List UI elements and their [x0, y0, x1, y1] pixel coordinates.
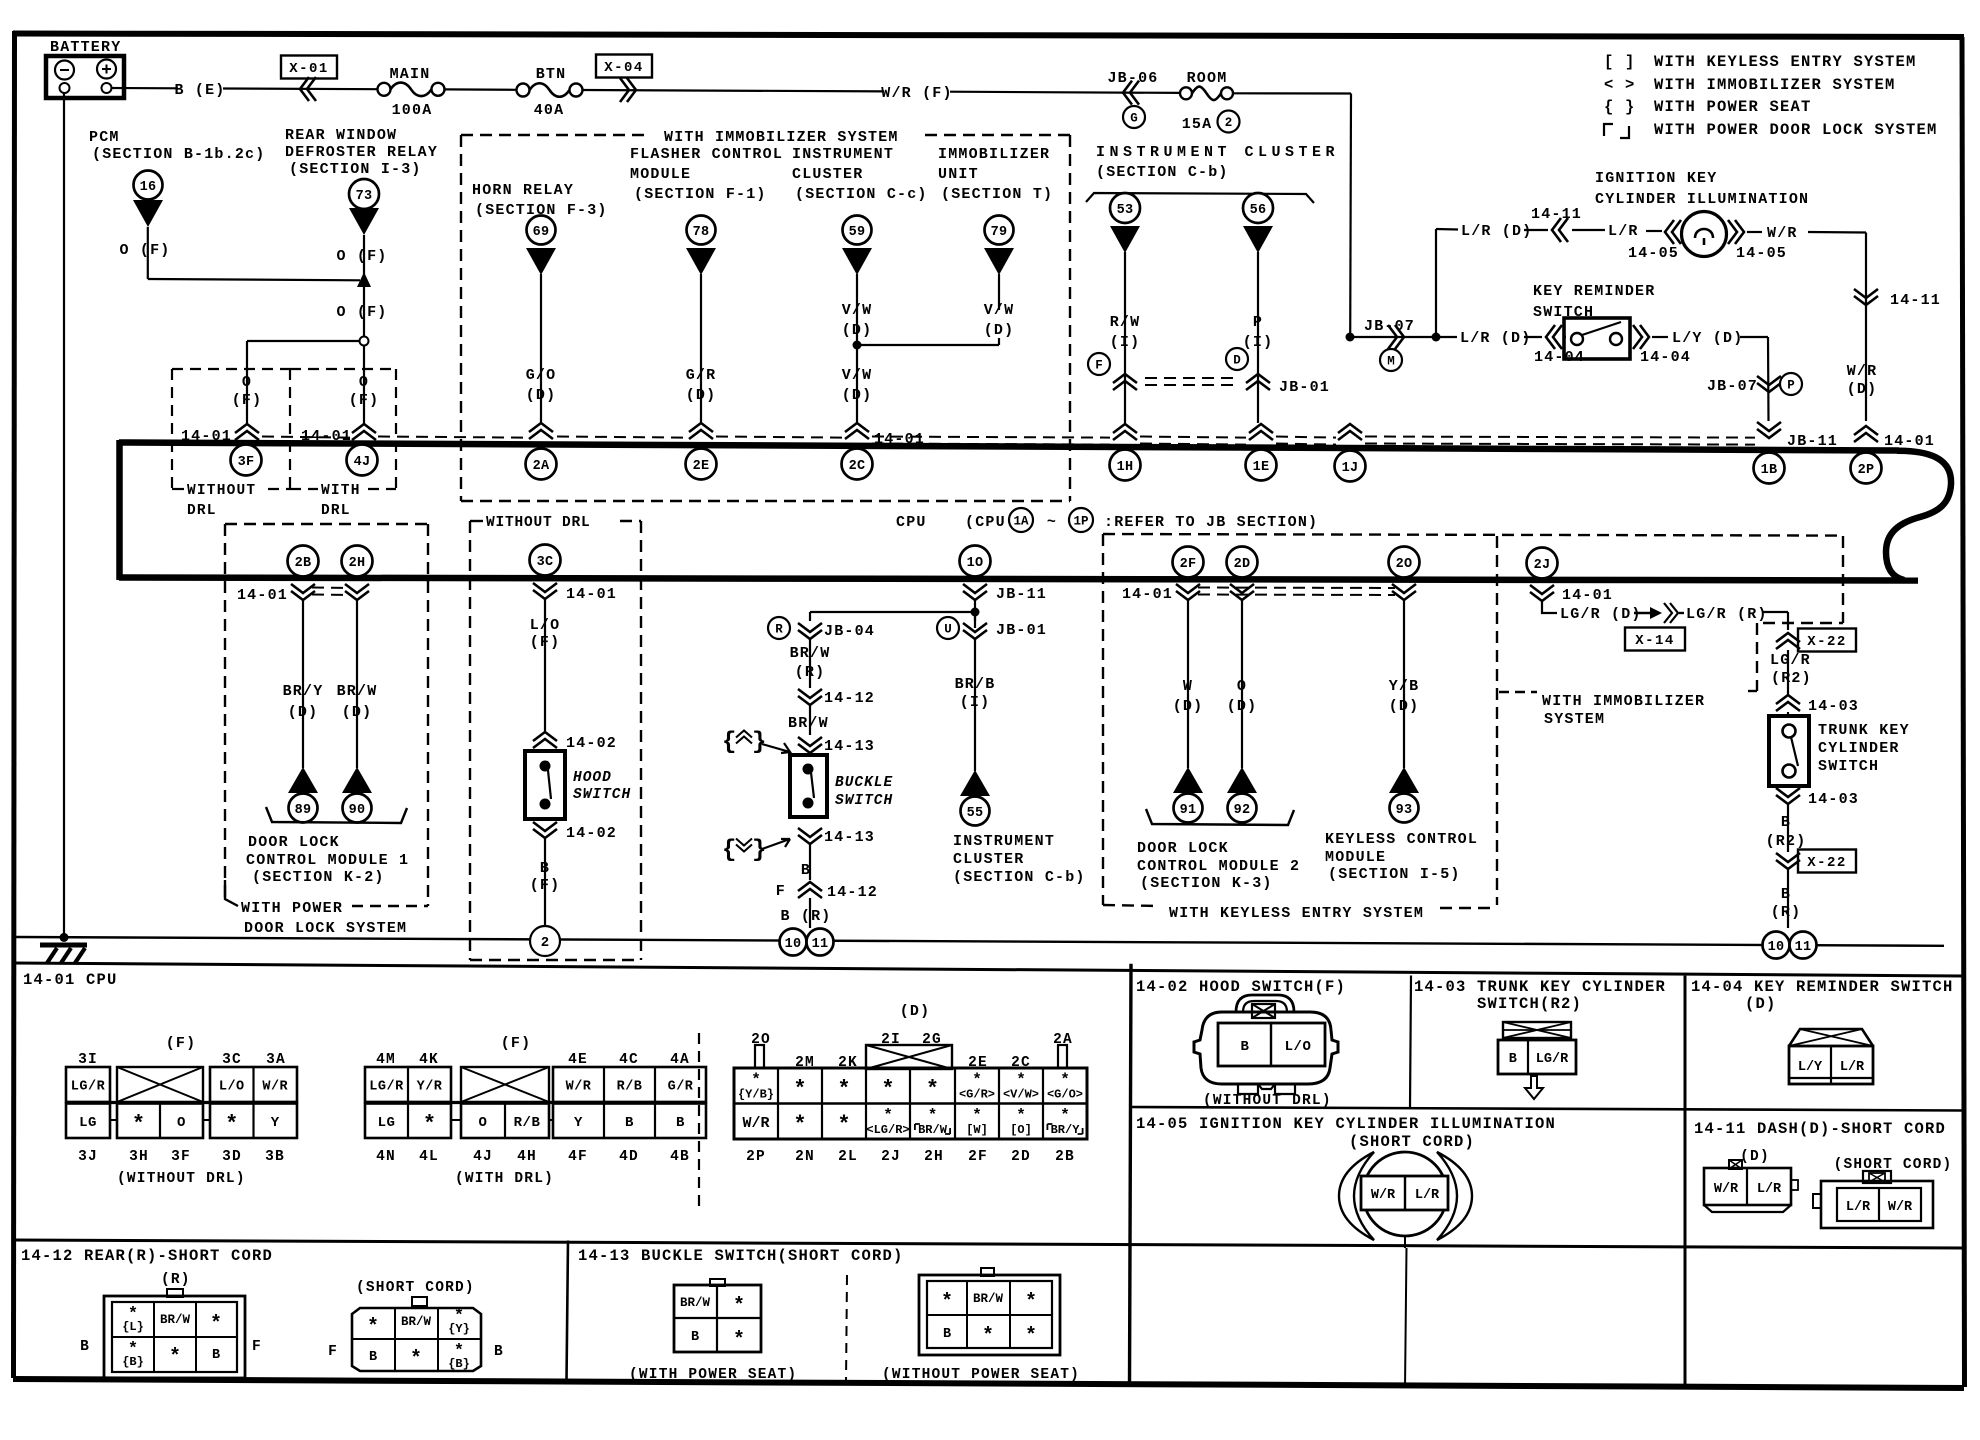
svg-text:1A: 1A	[1013, 515, 1029, 529]
svg-text:WITH IMMOBILIZER: WITH IMMOBILIZER	[1542, 693, 1705, 710]
svg-text:2D: 2D	[1234, 557, 1251, 572]
connector 79	[985, 216, 1014, 245]
svg-text:14-12: 14-12	[824, 690, 875, 707]
wire from JB-07 junction up-right	[1435, 229, 1437, 337]
svg-text:DRL: DRL	[321, 503, 351, 519]
svg-text:G/R: G/R	[668, 1079, 694, 1094]
svg-text:BR/W: BR/W	[401, 1315, 432, 1329]
svg-text:W/R (F): W/R (F)	[881, 85, 952, 102]
svg-text:3I: 3I	[78, 1052, 98, 1068]
svg-text:14-02: 14-02	[566, 825, 617, 842]
hood switch connector drawing	[1236, 995, 1294, 1012]
svg-text:*: *	[423, 1112, 436, 1137]
svg-text:14-13: 14-13	[824, 738, 875, 755]
connector 2J	[1527, 548, 1558, 579]
wire to right corner	[1233, 92, 1351, 94]
svg-text:LG/R: LG/R	[71, 1079, 106, 1094]
node M	[1380, 349, 1402, 371]
ground symbol	[40, 943, 87, 948]
svg-text:14-01: 14-01	[237, 587, 288, 604]
svg-text:14-05 IGNITION KEY CYLINDER IL: 14-05 IGNITION KEY CYLINDER ILLUMINATION	[1136, 1115, 1556, 1133]
svg-text:(WITH POWER SEAT): (WITH POWER SEAT)	[629, 1367, 797, 1383]
svg-text:<G/R>: <G/R>	[959, 1088, 995, 1102]
chevron 1E	[1249, 424, 1273, 433]
dashed immobilizer region	[1842, 536, 1844, 623]
ground bus wire	[16, 937, 1944, 946]
svg-text:(D): (D)	[686, 387, 717, 404]
svg-text:WITH POWER DOOR LOCK SYSTEM: WITH POWER DOOR LOCK SYSTEM	[1654, 121, 1938, 139]
crossed tab	[866, 1045, 952, 1069]
symbol stub	[1404, 1236, 1406, 1248]
wire	[583, 90, 885, 91]
svg-text:KEYLESS CONTROL: KEYLESS CONTROL	[1325, 831, 1478, 848]
svg-text:(D): (D)	[1740, 1149, 1770, 1165]
svg-text:11: 11	[1795, 940, 1812, 955]
svg-text:2H: 2H	[349, 556, 366, 571]
svg-text:L/Y (D): L/Y (D)	[1672, 330, 1743, 347]
svg-text:4E: 4E	[568, 1052, 588, 1068]
table grid	[13, 963, 1964, 976]
svg-text:Y/R: Y/R	[417, 1079, 443, 1094]
svg-text:14-04 KEY REMINDER SWITCH: 14-04 KEY REMINDER SWITCH	[1691, 978, 1954, 996]
connector 1O	[960, 546, 991, 577]
svg-text:(SECTION T): (SECTION T)	[941, 186, 1053, 203]
CPU bus right S-curve	[1886, 451, 1951, 580]
svg-text:R/W: R/W	[1110, 314, 1141, 331]
chevron 14-11	[1524, 229, 1548, 231]
svg-text:14-13: 14-13	[824, 829, 875, 846]
node 2	[1218, 111, 1240, 133]
svg-text:CONTROL MODULE 2: CONTROL MODULE 2	[1137, 858, 1300, 875]
connector 11 on ground wire	[807, 929, 834, 956]
svg-text:2: 2	[541, 935, 549, 951]
wire branch left	[810, 611, 975, 613]
svg-text:2P: 2P	[1858, 463, 1875, 478]
svg-text:}: }	[752, 837, 766, 864]
svg-text:*: *	[1060, 1071, 1070, 1089]
svg-text:U: U	[944, 623, 952, 637]
svg-text:O (F): O (F)	[336, 304, 387, 321]
svg-text::REFER TO JB SECTION): :REFER TO JB SECTION)	[1104, 514, 1318, 531]
svg-text:(D): (D)	[526, 387, 557, 404]
svg-text:ROOM: ROOM	[1187, 70, 1228, 87]
svg-text:CONTROL MODULE 1: CONTROL MODULE 1	[246, 852, 409, 869]
chevron 2H	[345, 584, 369, 593]
splice dot	[853, 341, 862, 350]
key reminder switch box	[1564, 336, 1566, 338]
dash connector short cord	[1863, 1171, 1891, 1183]
svg-text:4A: 4A	[670, 1052, 690, 1068]
svg-text:B (R): B (R)	[780, 908, 831, 925]
svg-text:~: ~	[1047, 514, 1057, 531]
svg-text:(R): (R)	[1771, 904, 1802, 921]
svg-text:LG/R: LG/R	[369, 1079, 404, 1094]
hood switch	[525, 751, 565, 819]
svg-text:(D): (D)	[1389, 698, 1420, 715]
svg-text:10: 10	[785, 937, 802, 952]
chevron 14-03 below	[1776, 788, 1800, 797]
svg-text:<V/W>: <V/W>	[1003, 1088, 1039, 1102]
wire battery minus to ground bus	[63, 93, 65, 937]
node D	[1226, 348, 1248, 370]
svg-text:}: }	[752, 729, 766, 756]
trunk key cylinder switch	[1787, 712, 1789, 716]
wire	[809, 639, 811, 688]
svg-text:*: *	[793, 1112, 806, 1137]
svg-text:Y: Y	[574, 1115, 583, 1131]
hollow arrow down	[1525, 1076, 1543, 1099]
svg-text:2F: 2F	[968, 1149, 988, 1165]
legend with power door lock system	[1604, 124, 1613, 136]
svg-text:WITH POWER: WITH POWER	[241, 900, 343, 917]
chevron 14-04	[1524, 336, 1542, 338]
svg-text:R: R	[775, 623, 783, 637]
svg-text:G: G	[1130, 112, 1138, 126]
svg-text:O: O	[242, 374, 252, 391]
svg-text:IMMOBILIZER: IMMOBILIZER	[938, 146, 1050, 163]
svg-text:78: 78	[693, 225, 710, 240]
connector 11 right	[1790, 932, 1817, 959]
arrow chevron X-14	[1634, 612, 1655, 614]
svg-text:2D: 2D	[1011, 1149, 1031, 1165]
connector 14-01 (F) with DRL row2	[365, 1104, 451, 1139]
JB-01 chevrons row	[1113, 374, 1137, 383]
splice junction	[357, 272, 371, 287]
wire	[809, 844, 811, 880]
svg-text:(F): (F)	[166, 1035, 197, 1052]
wire	[809, 898, 811, 928]
wire 4J column down	[363, 346, 365, 426]
svg-text:B: B	[691, 1330, 699, 1345]
connector 2A	[526, 449, 557, 480]
svg-text:*: *	[982, 1325, 994, 1348]
svg-text:14-13 BUCKLE SWITCH(SHORT CORD: 14-13 BUCKLE SWITCH(SHORT CORD)	[578, 1247, 904, 1265]
svg-text:LG: LG	[378, 1115, 396, 1131]
connector 2P	[1851, 453, 1882, 484]
svg-text:14-05: 14-05	[1628, 245, 1679, 262]
svg-text:BUCKLE: BUCKLE	[835, 775, 893, 791]
svg-text:14-11: 14-11	[1890, 292, 1941, 309]
wire	[1763, 611, 1788, 613]
connector 1J	[1335, 451, 1366, 482]
svg-text:R/B: R/B	[514, 1115, 541, 1131]
svg-text:FLASHER CONTROL: FLASHER CONTROL	[630, 146, 783, 163]
wire	[1787, 650, 1789, 694]
svg-text:WITH KEYLESS ENTRY SYSTEM: WITH KEYLESS ENTRY SYSTEM	[1169, 905, 1424, 922]
svg-text:L/O: L/O	[530, 617, 561, 634]
svg-text:3D: 3D	[222, 1149, 242, 1165]
node F	[1088, 353, 1110, 375]
svg-text:*: *	[1016, 1107, 1026, 1125]
svg-text:(SECTION K-2): (SECTION K-2)	[252, 869, 385, 886]
svg-text:3C: 3C	[222, 1052, 242, 1068]
label L/Y(D)	[1652, 336, 1668, 338]
svg-text:2A: 2A	[533, 459, 550, 474]
svg-text:4J: 4J	[354, 455, 371, 470]
svg-text:14-11 DASH(D)-SHORT CORD: 14-11 DASH(D)-SHORT CORD	[1694, 1120, 1946, 1138]
svg-text:JB-04: JB-04	[824, 623, 875, 640]
buckle connector with power seat	[710, 1279, 725, 1286]
svg-text:*: *	[225, 1112, 238, 1137]
svg-text:UNIT: UNIT	[938, 166, 979, 183]
svg-text:2E: 2E	[693, 459, 710, 474]
svg-text:14-01: 14-01	[1884, 433, 1935, 450]
wire	[1257, 252, 1259, 423]
svg-text:*: *	[972, 1071, 982, 1089]
svg-text:F: F	[1095, 359, 1103, 373]
branch node (open circle)	[360, 337, 369, 346]
svg-text:*: *	[410, 1348, 422, 1371]
svg-text:X-22: X-22	[1807, 634, 1847, 650]
svg-text:BR/W: BR/W	[788, 715, 829, 732]
wire PCM down and right	[147, 227, 149, 279]
svg-text:INSTRUMENT: INSTRUMENT	[792, 146, 894, 163]
row link lines	[66, 1101, 297, 1104]
buckle switch	[790, 755, 827, 817]
svg-text:BATTERY: BATTERY	[50, 39, 121, 56]
connector 78	[687, 216, 716, 245]
chevron 2D	[1230, 584, 1254, 593]
wire	[809, 705, 811, 735]
connector 4J	[347, 445, 378, 476]
svg-text:(SHORT CORD): (SHORT CORD)	[1349, 1133, 1475, 1151]
svg-text:40A: 40A	[534, 102, 565, 119]
svg-text:JB-07: JB-07	[1707, 378, 1758, 395]
svg-text:*: *	[941, 1291, 953, 1314]
svg-text:B: B	[801, 862, 811, 879]
wire	[1124, 252, 1126, 423]
svg-text:W/R: W/R	[742, 1115, 769, 1132]
wire	[1646, 230, 1662, 232]
chevron 14-13 above buckle	[798, 737, 822, 746]
svg-text:14-03: 14-03	[1808, 791, 1859, 808]
svg-text:(SHORT CORD): (SHORT CORD)	[356, 1280, 475, 1296]
chevron 14-13 below buckle	[798, 828, 822, 837]
svg-text:*: *	[928, 1107, 938, 1125]
svg-text:L/Y: L/Y	[1798, 1060, 1823, 1075]
svg-text:(I): (I)	[960, 694, 991, 711]
svg-text:{B}: {B}	[122, 1355, 144, 1369]
svg-text:10: 10	[1768, 940, 1785, 955]
svg-text:W/R: W/R	[1847, 363, 1878, 380]
svg-text:4L: 4L	[419, 1149, 439, 1165]
row link lines	[365, 1101, 706, 1104]
label X-22	[1798, 629, 1856, 652]
svg-text:1O: 1O	[967, 556, 984, 571]
svg-text:G/O: G/O	[526, 367, 557, 384]
connector X-01	[281, 56, 337, 79]
wire	[544, 838, 546, 926]
svg-text:WITH IMMOBILIZER SYSTEM: WITH IMMOBILIZER SYSTEM	[664, 129, 899, 146]
svg-text:(WITHOUT POWER SEAT): (WITHOUT POWER SEAT)	[882, 1367, 1080, 1383]
svg-text:P: P	[1787, 379, 1795, 393]
svg-text:(SECTION C-b): (SECTION C-b)	[953, 869, 1086, 886]
wire 2H	[356, 600, 358, 768]
svg-text:4F: 4F	[568, 1149, 588, 1165]
svg-text:(D): (D)	[288, 704, 319, 721]
svg-text:REAR WINDOW: REAR WINDOW	[285, 127, 397, 144]
connector 59	[843, 216, 872, 245]
svg-text:*: *	[751, 1071, 761, 1089]
svg-text:(SECTION C-b): (SECTION C-b)	[1096, 164, 1229, 181]
connector 2 on ground wire	[530, 926, 560, 956]
svg-text:SWITCH: SWITCH	[1818, 758, 1879, 775]
svg-text:2B: 2B	[1055, 1149, 1075, 1165]
svg-text:BR/Y: BR/Y	[283, 683, 324, 700]
chevron 3C 14-01	[533, 583, 557, 592]
wire	[974, 600, 976, 628]
junction dot	[971, 608, 980, 617]
svg-text:(D): (D)	[842, 387, 873, 404]
svg-text:V/W: V/W	[984, 302, 1015, 319]
svg-text:*: *	[1025, 1291, 1037, 1314]
svg-text:JB-06: JB-06	[1107, 70, 1158, 87]
chevron 14-04 right	[1633, 325, 1642, 349]
connector 14-01 (F) without DRL row1	[66, 1067, 110, 1102]
svg-text:W/R: W/R	[1371, 1188, 1396, 1203]
chevron 14-11 vertical	[1854, 289, 1878, 298]
svg-text:*: *	[926, 1077, 939, 1102]
svg-text:(R): (R)	[161, 1272, 191, 1288]
label X-14	[1625, 628, 1685, 651]
svg-text:V/W: V/W	[842, 367, 873, 384]
svg-text:LG/R: LG/R	[1770, 652, 1811, 669]
svg-text:93: 93	[1396, 803, 1413, 818]
svg-text:WITH KEYLESS ENTRY SYSTEM: WITH KEYLESS ENTRY SYSTEM	[1654, 53, 1917, 71]
connector 53	[1110, 193, 1140, 223]
chevron 14-02 below hood switch	[533, 822, 557, 831]
svg-text:L/R: L/R	[1415, 1188, 1440, 1203]
svg-text:X-01: X-01	[289, 61, 329, 77]
svg-text:55: 55	[967, 806, 984, 821]
svg-text:BR/W: BR/W	[973, 1292, 1004, 1306]
svg-text:BR/W: BR/W	[790, 645, 831, 662]
svg-text:W: W	[1183, 678, 1193, 695]
svg-text:2J: 2J	[881, 1149, 901, 1165]
svg-text:LG/R: LG/R	[1536, 1052, 1569, 1067]
svg-text:IGNITION KEY: IGNITION KEY	[1595, 170, 1717, 187]
connector 2H	[342, 546, 373, 577]
svg-text:3B: 3B	[265, 1149, 285, 1165]
svg-text:4N: 4N	[376, 1149, 396, 1165]
svg-text:WITHOUT DRL: WITHOUT DRL	[486, 515, 591, 531]
svg-text:(SECTION K-3): (SECTION K-3)	[1140, 875, 1273, 892]
svg-text:(D): (D)	[342, 704, 373, 721]
trunk key connector drawing	[1503, 1022, 1571, 1038]
svg-text:91: 91	[1180, 803, 1197, 818]
svg-text:3H: 3H	[129, 1149, 149, 1165]
bus2 dashed option row	[312, 587, 350, 590]
svg-text:DOOR LOCK SYSTEM: DOOR LOCK SYSTEM	[244, 920, 407, 937]
chevron 2A	[529, 423, 553, 432]
svg-text:(D): (D)	[1847, 381, 1878, 398]
svg-text:14-12: 14-12	[827, 884, 878, 901]
svg-text:O (F): O (F)	[119, 242, 170, 259]
chevron 1H	[1113, 424, 1137, 433]
svg-text:{Y}: {Y}	[448, 1322, 470, 1336]
junction dot	[1432, 333, 1441, 342]
svg-text:B: B	[212, 1348, 220, 1363]
svg-text:(D): (D)	[842, 322, 873, 339]
svg-text:JB-11: JB-11	[1787, 433, 1838, 450]
CPU bus upper	[119, 443, 1899, 451]
svg-text:14-11: 14-11	[1531, 206, 1582, 223]
chevron 14-12 lower	[798, 882, 822, 891]
svg-text:(R): (R)	[795, 664, 826, 681]
wire down	[363, 235, 365, 336]
svg-text:(SECTION I-3): (SECTION I-3)	[289, 161, 422, 178]
connector 2C	[842, 449, 873, 480]
wire to key reminder	[1350, 336, 1436, 338]
svg-text:KEY REMINDER: KEY REMINDER	[1533, 283, 1655, 300]
svg-text:*: *	[733, 1329, 745, 1352]
svg-text:L/O: L/O	[1285, 1039, 1312, 1055]
svg-text:WITHOUT: WITHOUT	[187, 483, 256, 499]
wire U column	[974, 616, 976, 621]
svg-text:B: B	[1241, 1039, 1250, 1055]
svg-text:JB-11: JB-11	[996, 586, 1047, 603]
wire to right corner	[1808, 231, 1866, 234]
svg-text:14-03 TRUNK KEY CYLINDER: 14-03 TRUNK KEY CYLINDER	[1414, 978, 1666, 996]
connector 10 right	[1763, 932, 1790, 959]
svg-text:{B}: {B}	[448, 1357, 470, 1371]
svg-text:1H: 1H	[1117, 460, 1134, 475]
svg-text:(I): (I)	[1243, 334, 1274, 351]
svg-text:(SECTION C-c): (SECTION C-c)	[795, 186, 928, 203]
svg-text:<LG/R>: <LG/R>	[866, 1123, 909, 1137]
svg-text:3J: 3J	[78, 1149, 98, 1165]
svg-text:{L}: {L}	[122, 1320, 144, 1334]
svg-text:LG/R (D): LG/R (D)	[1560, 606, 1642, 623]
svg-text:89: 89	[295, 803, 312, 818]
svg-text:WITH POWER SEAT: WITH POWER SEAT	[1654, 98, 1812, 116]
svg-text:MODULE: MODULE	[630, 166, 691, 183]
wire	[700, 274, 702, 423]
pin stubs	[755, 1045, 764, 1068]
svg-text:1P: 1P	[1073, 515, 1088, 529]
dashed box with power door lock system	[225, 523, 428, 525]
svg-text:L/R (D): L/R (D)	[1460, 330, 1531, 347]
svg-text:Y: Y	[271, 1115, 280, 1131]
illumination symbol	[1363, 1152, 1447, 1236]
svg-text:O: O	[177, 1115, 186, 1131]
svg-text:2: 2	[1225, 116, 1233, 130]
svg-text:[ ]: [ ]	[1604, 53, 1636, 71]
svg-text:*: *	[881, 1077, 894, 1102]
svg-text:X-22: X-22	[1807, 855, 1847, 871]
svg-text:F: F	[252, 1339, 262, 1355]
chevron 2E	[689, 423, 713, 432]
svg-text:(SECTION F-1): (SECTION F-1)	[634, 186, 767, 203]
wire	[1787, 804, 1789, 852]
svg-text:14-01 CPU: 14-01 CPU	[23, 971, 118, 989]
wire battery plus to main power line	[111, 87, 178, 90]
connector 14-01 (F) without DRL row2	[66, 1104, 110, 1139]
svg-text:V/W: V/W	[842, 302, 873, 319]
svg-text:4J: 4J	[473, 1149, 493, 1165]
connector 3F	[231, 445, 262, 476]
svg-text:(F): (F)	[530, 634, 561, 651]
svg-text:*: *	[1016, 1071, 1026, 1089]
svg-text:B: B	[1509, 1052, 1518, 1067]
wire	[950, 92, 1180, 93]
svg-text:WITH IMMOBILIZER SYSTEM: WITH IMMOBILIZER SYSTEM	[1654, 76, 1896, 94]
svg-text:M: M	[1387, 355, 1395, 369]
label W/R	[1747, 231, 1762, 233]
svg-text:{: {	[722, 837, 736, 864]
svg-text:INSTRUMENT CLUSTER: INSTRUMENT CLUSTER	[1096, 144, 1339, 161]
svg-text:*: *	[132, 1112, 145, 1137]
